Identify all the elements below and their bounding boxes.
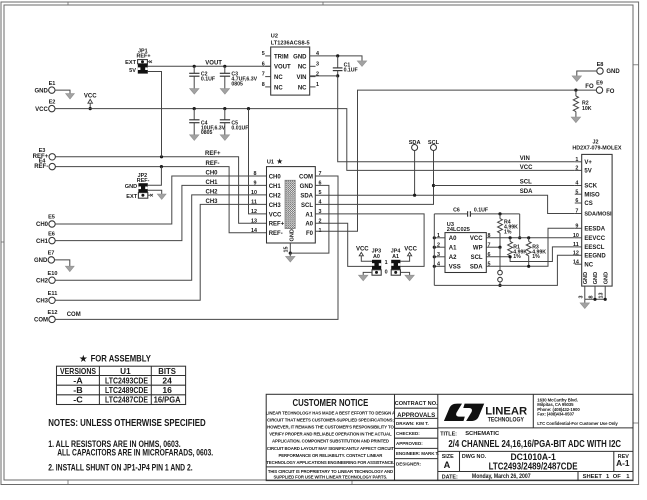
turret E6 [36,231,55,245]
svg-text:A1: A1 [449,246,457,252]
svg-text:NC: NC [298,65,307,71]
pin 6 J2 CS [575,198,582,204]
svg-text:A: A [444,460,451,470]
svg-text:E1: E1 [49,81,56,87]
svg-text:SDA: SDA [409,140,421,146]
svg-text:VIN: VIN [520,156,530,162]
jumper JP3 A0 [372,249,388,276]
turret SDA [409,140,421,151]
svg-text:★: ★ [80,354,89,364]
node WP/R4 bottom [498,246,501,249]
svg-text:CH1: CH1 [36,239,49,245]
svg-text:SDA: SDA [300,193,313,199]
svg-text:0.1UF: 0.1UF [201,77,215,83]
svg-text:24: 24 [162,377,172,386]
wire SDA net U1 pin5 to J2 [315,195,575,213]
jumper JP2 REF- [125,173,153,200]
svg-text:3: 3 [316,61,319,67]
resistor R4 4.99K [498,214,518,247]
node C6/R4 top [498,212,501,215]
svg-text:CUSTOMER NOTICE: CUSTOMER NOTICE [293,398,369,409]
svg-text:U1: U1 [120,367,131,376]
wire C6 right leg to EEVCC [519,214,521,238]
svg-text:LTC2489CDE: LTC2489CDE [105,386,149,395]
wire JP2 to ground [148,190,162,194]
wire EESDA net U3 pin5 to J2 pin9 [486,228,575,266]
power VCC arrow JP4 [400,246,417,261]
svg-text:GND: GND [606,69,620,75]
svg-text:A0: A0 [305,222,313,228]
svg-text:12: 12 [573,250,579,256]
svg-text:13: 13 [251,218,257,224]
svg-text:GND: GND [583,272,589,284]
wire EEGND net J2 pin12 [434,255,575,285]
svg-text:APPLICATION. COMPONENT SUBSTI: APPLICATION. COMPONENT SUBSTITUTION AND … [272,439,389,444]
svg-text:SCL: SCL [301,203,313,209]
svg-text:11: 11 [573,242,579,248]
node R3 top [527,236,530,239]
wire VCC rail [55,109,575,171]
svg-text:Monday, March 26, 2007: Monday, March 26, 2007 [472,473,531,480]
node U1 gnd junction [289,252,292,255]
node R1 top [509,236,512,239]
ground symbol C2 [190,89,199,95]
pin 8 U2 NC [262,82,271,88]
svg-text:A1: A1 [305,212,313,218]
svg-text:FO: FO [585,84,594,90]
svg-text:FO: FO [606,89,615,95]
svg-text:CIRCUIT BOARD LAYOUT MAY SIGNI: CIRCUIT BOARD LAYOUT MAY SIGNIFICANTLY A… [267,446,395,451]
svg-text:HOWEVER, IT REMAINS THE CUSTOM: HOWEVER, IT REMAINS THE CUSTOMER'S RESPO… [267,425,394,430]
svg-text:CH0: CH0 [206,171,219,177]
svg-text:0.1UF: 0.1UF [474,208,488,214]
node test pad 2 [498,277,503,282]
svg-text:REF-: REF- [206,161,220,167]
wire E1 to ground [55,90,70,94]
wire SCL turret drop and U1 pin4 [315,151,433,205]
svg-text:E9: E9 [596,81,603,87]
date / sheet row [442,472,631,481]
svg-text:9: 9 [575,223,578,229]
approvals column [395,401,439,467]
svg-text:A1: A1 [392,254,399,260]
svg-text:1: 1 [575,157,578,163]
svg-text:LTC2493CDE: LTC2493CDE [105,377,149,386]
svg-text:CH2: CH2 [36,278,49,284]
svg-text:EESCL: EESCL [584,245,604,251]
svg-text:6: 6 [575,198,578,204]
wire J2 ground bus [585,298,605,300]
svg-text:0: 0 [385,270,388,276]
svg-text:CH2: CH2 [206,189,219,195]
ground symbol U2 [357,61,366,67]
svg-text:TECHNOLOGY APPLICATIONS ENGINE: TECHNOLOGY APPLICATIONS ENGINEERING FOR … [266,460,394,465]
turret E2 [35,99,55,113]
resistor R2 10K [573,90,591,117]
svg-text:NOTES: UNLESS OTHERWISE SPECI: NOTES: UNLESS OTHERWISE SPECIFIED [48,418,206,429]
svg-text:SUPPLIED FOR USE WITH LINEAR T: SUPPLIED FOR USE WITH LINEAR TECHNOLOGY … [274,475,388,480]
wire U3 WP pin7 [486,246,500,248]
svg-text:LINEAR TECHNOLOGY HAS MADE A B: LINEAR TECHNOLOGY HAS MADE A BEST EFFORT… [266,410,395,415]
pin 5 U2 TRIM [262,51,271,57]
svg-text:NC: NC [298,85,307,91]
svg-text:EEVCC: EEVCC [584,236,605,242]
pin 4 J2 SCK [575,181,582,187]
svg-text:2: 2 [575,166,578,172]
svg-text:CIRCUIT THAT MEETS CUSTOMER-SU: CIRCUIT THAT MEETS CUSTOMER-SUPPLIED SPE… [267,417,394,422]
svg-text:4: 4 [437,261,440,267]
svg-text:E5: E5 [48,215,55,221]
wire E8 to ground [577,71,597,76]
svg-text:REF+: REF+ [205,151,221,157]
svg-text:CH1: CH1 [206,180,219,186]
svg-text:U1: U1 [267,160,274,166]
svg-text:PERFORMANCE OR RELIABILITY. C: PERFORMANCE OR RELIABILITY. CONTACT LINE… [279,453,384,458]
size / dwg / rev cells [442,451,630,472]
svg-text:5: 5 [262,51,265,57]
svg-text:WP: WP [473,246,483,252]
wire REF- net [55,167,266,233]
pin 4 U2 GND [310,51,319,57]
svg-text:SDA: SDA [470,265,483,271]
wire WP to test pads [499,247,501,270]
wire VIN net to J2 [338,76,575,162]
svg-text:LT1236ACS8-5: LT1236ACS8-5 [271,41,310,47]
IC U3 24LC025 EEPROM [445,222,486,272]
svg-text:2. INSTALL SHUNT ON JP1-JP4 P: 2. INSTALL SHUNT ON JP1-JP4 PIN 1 AND 2. [48,462,193,472]
svg-text:SCHEMATIC: SCHEMATIC [465,431,500,437]
ground symbol R2 [571,117,580,123]
svg-text:CH1: CH1 [269,184,282,190]
svg-text:APPROVED:: APPROVED: [396,441,423,446]
wire EEVCC net [486,237,575,239]
turret E4 [34,158,55,170]
svg-text:U2: U2 [271,34,278,40]
svg-text:E8: E8 [597,62,604,68]
wire E7 to ground [55,260,70,266]
svg-text:0.01UF: 0.01UF [231,125,248,131]
svg-text:13: 13 [599,293,605,299]
svg-text:SHEET: SHEET [583,474,603,480]
wire U1 F0 to FO net [315,90,596,231]
svg-text:REF-: REF- [137,178,150,184]
jumper JP4 A1 [391,249,401,276]
turret E11 [36,291,57,305]
svg-text:GND: GND [34,258,48,264]
svg-text:E11: E11 [48,291,58,297]
svg-text:CH0: CH0 [36,222,49,228]
capacitor C2 [189,66,215,88]
svg-text:VSS: VSS [449,265,461,271]
wire CH1 net [55,185,266,240]
ground symbol J2 [580,303,589,309]
svg-text:14: 14 [251,228,257,234]
pin 7 U2 NC [262,72,271,78]
svg-text:2: 2 [316,72,319,78]
ground symbol JP2 [157,194,166,199]
capacitor C3 [220,66,258,88]
pin 2 J2 5V [575,166,582,172]
svg-text:VCC: VCC [520,165,533,171]
node VCC/C5 [223,107,226,110]
svg-text:OF: OF [613,474,622,480]
svg-text:V+: V+ [584,160,592,166]
wire JP1 to REF+ [148,72,162,157]
Linear Technology logo [444,404,465,421]
ground symbol C3 [220,89,229,95]
svg-text:1: 1 [316,82,319,88]
customer notice box [266,398,395,480]
svg-text:F0: F0 [306,231,314,237]
svg-text:COM: COM [299,174,313,180]
svg-text:GND: GND [300,184,314,190]
title block frame [266,394,633,480]
node test pad 1 [498,270,503,275]
svg-text:CH2: CH2 [269,193,282,199]
svg-text:VERSIONS: VERSIONS [60,367,97,376]
svg-text:SCK: SCK [584,184,597,190]
svg-text:ALL CAPACITORS ARE IN MICROFAR: ALL CAPACITORS ARE IN MICROFARADS, 0603. [57,448,213,458]
svg-text:A2: A2 [449,255,457,261]
svg-text:12: 12 [251,209,257,215]
svg-text:DATE:: DATE: [442,474,458,480]
title cell [440,431,621,450]
svg-text:7: 7 [262,72,265,78]
turret E3 [33,148,56,160]
svg-text:LTC2487CDE: LTC2487CDE [105,396,149,405]
svg-text:SCL: SCL [471,255,483,261]
svg-text:10: 10 [573,233,579,239]
svg-text:VOUT: VOUT [205,61,222,67]
svg-text:CS: CS [584,201,592,207]
svg-text:LINEAR: LINEAR [485,405,527,417]
ground symbol E8 [572,76,581,82]
svg-text:NC: NC [274,75,283,81]
svg-text:A0: A0 [449,236,457,242]
node C6 right leg [518,236,521,239]
svg-text:1%: 1% [532,254,540,260]
svg-text:4: 4 [575,181,578,187]
wire A0 U1 pin2 to JP3 [315,223,372,266]
svg-text:MISO: MISO [584,192,600,198]
svg-text:SDA: SDA [520,189,533,195]
pin 3 U2 NC [310,61,319,67]
wire JP1 to VOUT [148,65,271,67]
jumper JP1 REF+ [125,48,152,74]
turret E1 [34,81,55,95]
pin 10 J2 EEVCC [573,233,582,239]
svg-text:THIS CIRCUIT IS PROPRIETARY TO: THIS CIRCUIT IS PROPRIETARY TO LINEAR TE… [268,469,393,474]
svg-text:EESDA: EESDA [584,227,605,233]
svg-text:0.1UF: 0.1UF [344,68,358,74]
ground symbol JP4 [405,275,414,281]
svg-text:VCC: VCC [35,107,48,113]
svg-text:5V: 5V [584,169,591,175]
pin 13 J2 GND [599,286,606,299]
svg-text:BITS: BITS [158,367,176,376]
svg-text:10K: 10K [582,106,592,112]
wire U2 GND pin to ground [316,56,363,61]
svg-text:TRIM: TRIM [274,54,289,60]
svg-text:REF-: REF- [34,164,48,170]
turret E9 [596,81,615,95]
node VCC rail dot [89,107,92,110]
pin 4 U3 VSS [433,261,445,268]
wire A1 U1 pin3 to JP4 [315,214,424,267]
wire test pad to gnd line [499,282,501,286]
svg-text:E10: E10 [48,271,58,277]
pin 8 J2 GND [589,286,596,299]
svg-text:A-1: A-1 [616,458,630,468]
svg-text:CONTRACT NO.: CONTRACT NO. [395,401,438,407]
ground symbol C5 [220,135,229,141]
svg-text:E6: E6 [48,231,55,237]
pin 6 U2 VOUT [262,61,271,67]
svg-text:DWG NO.: DWG NO. [462,454,487,460]
svg-text:SDA/MOSI: SDA/MOSI [584,212,612,218]
svg-text:SCL: SCL [520,180,532,186]
pin 14 J2 NC [573,259,582,265]
svg-text:1: 1 [385,260,388,266]
wire U3 left pins common vertical [433,214,435,286]
svg-text:Fax: (408)434-0507: Fax: (408)434-0507 [537,411,574,416]
capacitor C4 [189,109,225,137]
svg-text:0805: 0805 [201,130,213,136]
svg-text:8: 8 [262,82,265,88]
wire SDA turret drop [414,151,416,196]
svg-text:CH3: CH3 [206,199,219,205]
svg-text:14: 14 [573,259,579,265]
svg-text:3: 3 [578,296,584,299]
capacitor C1 [333,56,358,76]
pin 15 U1 GND paddle [284,243,291,253]
svg-text:6: 6 [262,61,265,67]
svg-text:LTC Confidential-For Customer: LTC Confidential-For Customer Use Only [537,421,618,426]
svg-text:VOUT: VOUT [274,65,291,71]
node SDA junction [413,194,416,197]
pin 12 J2 EEGND [573,250,582,256]
node VOUT/C3 [223,65,226,68]
svg-text:REF+: REF+ [137,54,151,60]
svg-text:REF+: REF+ [269,222,285,228]
node VCC/C4 [193,107,196,110]
svg-text:A0: A0 [373,254,380,260]
node REF+ / JP1 junction [160,155,163,158]
svg-text:0805: 0805 [231,81,243,87]
svg-text:VERIFY PROPER AND RELIABLE OPE: VERIFY PROPER AND RELIABLE OPERATION IN … [269,432,392,437]
wire SCL net to J2 [434,185,575,187]
svg-text:EXT: EXT [126,194,137,200]
svg-text:EEGND: EEGND [584,254,606,260]
svg-text:COM: COM [34,318,48,324]
pin 5 J2 MISO [575,189,582,195]
svg-text:GND: GND [593,272,599,284]
ground symbol U1 [286,256,295,262]
wire CH3 net [55,204,266,300]
node U2 GND/C1 [336,54,339,57]
pin 3 U3 A2 [433,252,445,259]
svg-text:GND: GND [293,54,307,60]
turret E8 [597,62,621,75]
svg-text:CH3: CH3 [36,299,49,305]
svg-text:ENGINEER: MARK T.: ENGINEER: MARK T. [396,451,439,456]
svg-text:-C: -C [73,396,83,405]
ground symbol JP3 [359,275,368,281]
capacitor C5 [220,109,249,135]
wire COM net [55,176,338,319]
svg-text:TECHNOLOGY: TECHNOLOGY [488,418,524,424]
svg-text:EXT: EXT [125,60,136,66]
svg-text:1: 1 [437,233,440,239]
svg-text:3: 3 [437,252,440,258]
svg-text:2/4 CHANNEL 24,16,16/PGA-BIT A: 2/4 CHANNEL 24,16,16/PGA-BIT ADC WITH I2… [448,439,621,450]
resistor R1 4.99K [508,238,528,260]
svg-text:SCL: SCL [428,140,440,146]
svg-text:DESIGNER:: DESIGNER: [396,461,422,466]
turret E12 [34,310,57,324]
wire JP2 to REF- [148,167,162,186]
wire VCC to U1 pin12 [249,109,267,214]
svg-text:10: 10 [251,190,257,196]
svg-text:1%: 1% [504,229,512,235]
node VIN/C1 [336,74,339,77]
svg-text:COM: COM [67,312,81,318]
pin 1 U2 NC [310,82,319,88]
svg-text:VIN: VIN [296,75,306,81]
svg-text:GND: GND [125,184,137,190]
wire CH0 net [55,176,266,224]
svg-text:GND: GND [603,272,609,284]
pin 3 J2 GND [578,286,585,299]
resistor R3 4.99K [526,238,546,266]
wire EESCL net U3 pin6 to J2 pin11 [486,247,575,262]
svg-text:1%: 1% [513,254,521,260]
pin 9 J2 EESDA [575,223,582,229]
svg-text:NC: NC [274,85,283,91]
svg-text:GND: GND [290,229,296,241]
svg-text:NC: NC [584,262,593,268]
svg-text:CH3: CH3 [269,203,282,209]
power VCC arrow [84,94,97,109]
pin 1 J2 V+ [575,157,582,163]
svg-text:15: 15 [284,247,290,253]
svg-text:E2: E2 [49,99,56,105]
node REF- / JP2 junction [160,165,163,168]
pin 2 U3 A1 [433,242,445,248]
node SCL junction [432,184,435,187]
pin 11 J2 EESCL [573,242,582,248]
svg-text:HD2X7-079-MOLEX: HD2X7-079-MOLEX [572,145,622,151]
assembly table [57,366,186,405]
power VCC arrow JP3 [356,246,372,261]
svg-text:GND: GND [34,88,48,94]
svg-text:VCC: VCC [84,94,97,100]
svg-text:11: 11 [251,199,257,205]
node R3 bottom [527,265,530,268]
svg-text:TITLE:: TITLE: [440,432,457,438]
svg-text:REF-: REF- [269,231,283,237]
svg-text:C6: C6 [453,208,460,214]
svg-text:-A: -A [73,377,83,386]
svg-text:5V: 5V [129,68,136,74]
ground symbol E7 [65,266,74,271]
svg-text:-B: -B [73,386,83,395]
svg-text:VCC: VCC [269,212,282,218]
ground symbol E1 [66,94,75,99]
svg-text:VCC: VCC [470,236,483,242]
svg-text:2: 2 [437,242,440,248]
ground symbol C4 [190,135,199,141]
